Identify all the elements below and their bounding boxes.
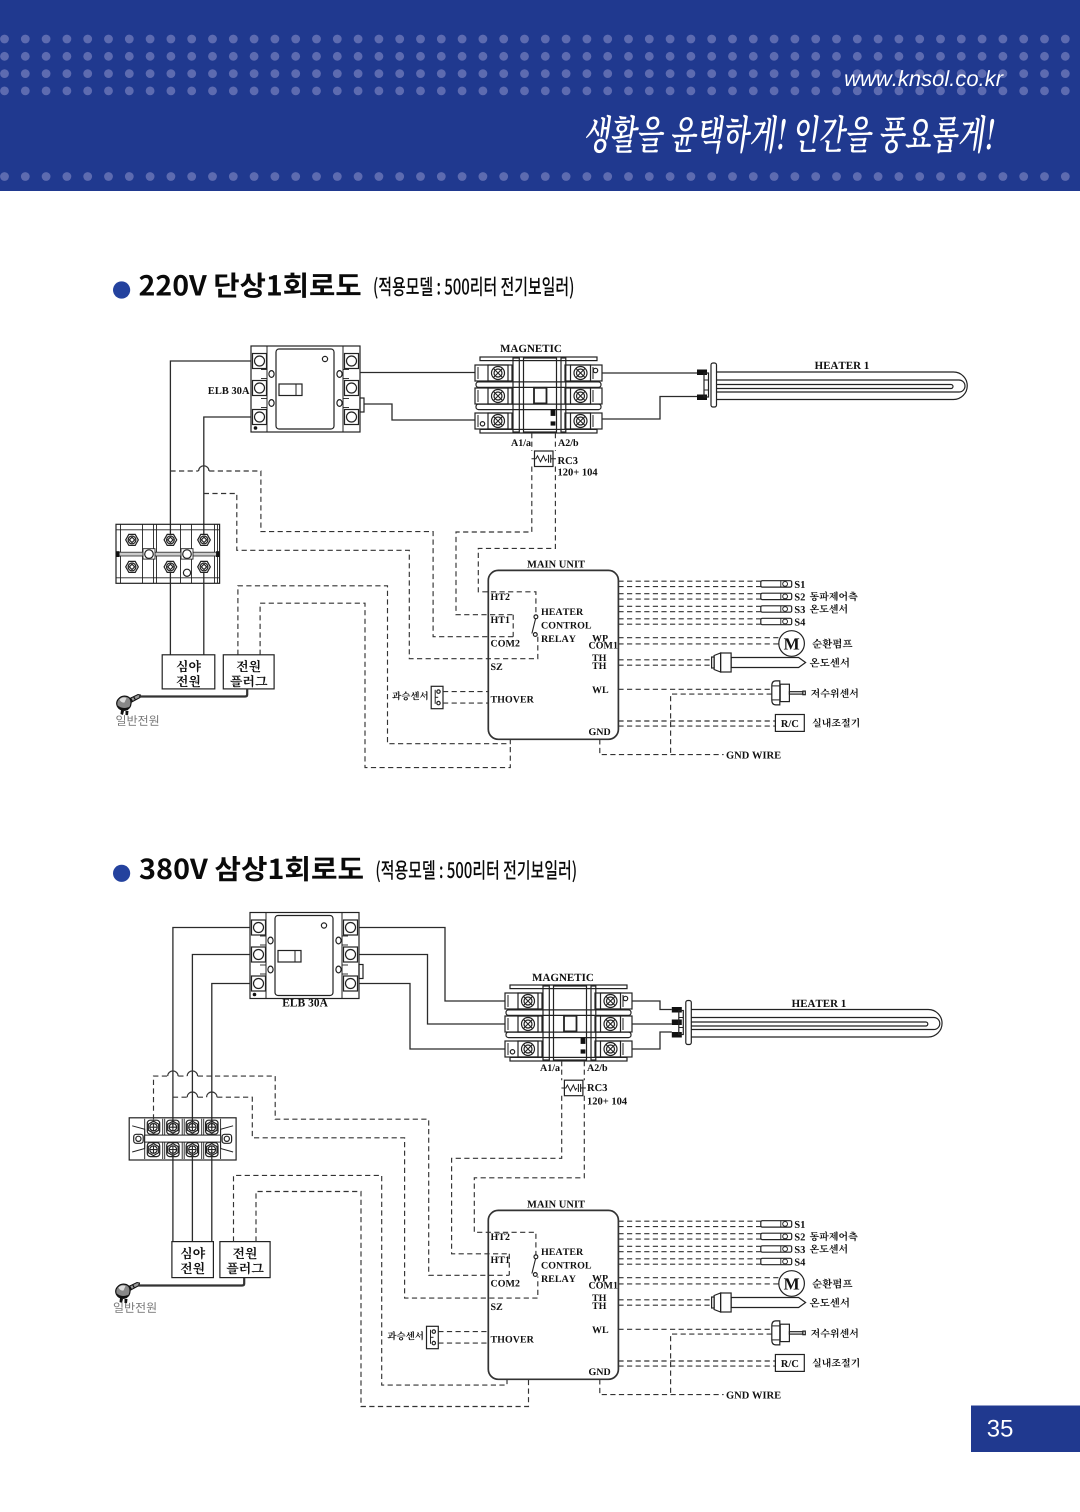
wire pair to sensor S3 (diagram 1) (618, 606, 760, 611)
label HEATER 1 (diagram 2) (792, 1000, 846, 1007)
wire pair to sensor S4 (diagram 1) (618, 619, 760, 624)
label S3 (diagram 2) (795, 1246, 805, 1253)
circulation pump motor M (diagram 2) (779, 1271, 805, 1297)
wire contactor to heater row2 (d2) (632, 1023, 672, 1025)
wire contactor to heater bottom (602, 397, 697, 420)
header band with dot pattern (0, 0, 1080, 191)
pin label COM1 (diagram 1) (589, 642, 617, 649)
pin label TH upper (diagram 1) (592, 655, 606, 662)
wire pair to room controller (diagram 2) (618, 1361, 775, 1366)
RC3 snubber (diagram 1) (532, 451, 557, 467)
wire pair to room controller (diagram 1) (618, 721, 775, 726)
water level sensor ground wire (diagram 2) (671, 1334, 772, 1395)
label overheat sensor korean (diagram 2) (388, 1331, 423, 1340)
label night power korean (d2) (181, 1247, 205, 1260)
hop over wire (diagram 1) (199, 466, 209, 471)
wire contactor to heater row3 (d2) (632, 1032, 672, 1049)
heater element HEATER 1 (diagram 1) (697, 363, 967, 407)
label night power korean (177, 660, 201, 673)
coil wire A1 to HT1 (d2) (452, 1096, 562, 1254)
wire block to night power box L3 (d2) (211, 1151, 213, 1242)
sensor lug S4 (diagram 1) (761, 618, 792, 624)
terminal block (diagram 2) (129, 1118, 236, 1160)
label RC3 (diagram 2) (587, 1084, 607, 1091)
wire block to night power box L2 (d2) (191, 1151, 193, 1242)
wire pair to sensor S4 (diagram 2) (618, 1259, 760, 1264)
label temp sensor korean (diagram 2) (810, 1298, 849, 1308)
pin label HT2 (diagram 1) (491, 593, 510, 600)
main unit label (diagram 2) (527, 1201, 585, 1208)
pin label SZ (diagram 1) (491, 663, 502, 670)
sensor lug S2 (diagram 1) (761, 593, 792, 599)
heater control relay label (diagram 2) (541, 1248, 583, 1255)
wire L3 block to breaker (d2) (212, 984, 250, 1129)
dashed night power tap to COM2 (170, 471, 513, 637)
sensor lug S3 (diagram 2) (761, 1246, 792, 1252)
pin label WP (diagram 1) (592, 635, 608, 642)
wire breaker to contactor bottom (364, 404, 475, 420)
power plug box (d2) (220, 1242, 270, 1278)
label A1/a (diagram 1) (511, 439, 531, 446)
coil wire A2 to RC3 (554, 433, 556, 451)
title 220V text (140, 273, 361, 298)
wire to water level sensor (diagram 1) (618, 688, 771, 690)
wire night power L2 to breaker (204, 417, 251, 535)
label S4 (diagram 1) (795, 619, 805, 626)
label MAGNETIC (diagram 2) (532, 974, 593, 981)
wire pair to sensor S3 (diagram 2) (618, 1246, 760, 1251)
dashed SZ tap line (d2) (173, 1097, 538, 1298)
dashed HT1 relay box right side (d2) (508, 1254, 510, 1276)
wire pair to sensor S1 (diagram 1) (618, 581, 760, 586)
wire contactor to heater row1 (d2) (632, 1001, 672, 1010)
label S3 korean (diagram 2) (810, 1244, 847, 1254)
pin label TH lower (diagram 1) (592, 663, 606, 670)
sensor lug S1 (diagram 2) (761, 1221, 792, 1227)
water level sensor ground wire (diagram 1) (671, 694, 772, 755)
title 220V subtitle (374, 277, 573, 299)
dashed HT1 relay box right side (512, 615, 514, 637)
label GND WIRE (diagram 1) (727, 752, 781, 759)
overheat sensor (diagram 1) (431, 686, 443, 708)
label pump korean (diagram 2) (812, 1279, 852, 1289)
sensor lug S1 (diagram 1) (761, 581, 792, 587)
label S3 (diagram 1) (795, 606, 805, 613)
pin label HT1 (diagram 1) (491, 616, 510, 623)
hop arcs night line (d2) (168, 1071, 198, 1076)
pin label HT1 (diagram 2) (491, 1256, 510, 1263)
power plug box (223, 655, 274, 689)
label S1 (diagram 1) (795, 581, 805, 588)
hop arcs SZ line (d2) (187, 1092, 217, 1097)
pin label COM1 (diagram 2) (589, 1282, 617, 1289)
night power box (162, 655, 215, 689)
label room controller korean (diagram 2) (813, 1358, 859, 1368)
label overheat sensor korean (diagram 1) (392, 691, 427, 700)
header url www.knsol.co.kr (845, 70, 1004, 86)
coil wire A1 to RC3 (d2) (561, 1061, 563, 1080)
water level sensor (diagram 2) (772, 1321, 806, 1345)
plug cord (diagram 2) (138, 1278, 244, 1286)
pin label TH lower (diagram 2) (592, 1303, 606, 1310)
pin label GND (diagram 1) (589, 728, 610, 735)
dashed plug line to gnd wire (d2) (256, 1192, 529, 1407)
heater control relay contact (diagram 1) (532, 615, 538, 637)
water level sensor (diagram 1) (772, 681, 806, 705)
label A1/a (diagram 2) (540, 1064, 560, 1071)
label S2 korean (diagram 1) (810, 591, 858, 601)
coil wire A2 to HT2 relay (478, 467, 555, 615)
wire L1 block to breaker (d2) (173, 928, 250, 1129)
wire L2 block to breaker (d2) (192, 955, 250, 1129)
label A2/b (diagram 1) (558, 439, 578, 446)
circulation pump motor M (diagram 1) (779, 631, 805, 657)
magnetic contactor (diagram 2) (505, 985, 632, 1061)
wire pair to sensor S2 (diagram 1) (618, 594, 760, 599)
page number 35 (988, 1420, 1013, 1437)
label A2/b (diagram 2) (587, 1064, 607, 1071)
dashed night line from block col1 (d2) (154, 1076, 510, 1275)
pin label THOVER (diagram 2) (491, 1336, 534, 1343)
sensor lug S2 (diagram 2) (761, 1233, 792, 1239)
wire pair to sensor S2 (diagram 2) (618, 1234, 760, 1239)
label water level korean (diagram 2) (811, 1328, 858, 1338)
title 380V subtitle (377, 860, 576, 882)
title bullet 2 (113, 865, 130, 882)
pin label TH upper (diagram 2) (592, 1295, 606, 1302)
pin label COM2 (diagram 2) (491, 1280, 520, 1287)
label GND WIRE (diagram 2) (727, 1392, 781, 1399)
coil wire A2 to HT2 relay (d2) (474, 1096, 584, 1255)
coil wire A2 to RC3 (d2) (583, 1061, 585, 1080)
label temp sensor korean (diagram 1) (810, 658, 849, 668)
pin label WL (diagram 2) (592, 1327, 608, 1334)
main unit label (diagram 1) (527, 561, 585, 568)
header slogan (584, 115, 996, 154)
heater control relay label (diagram 1) (541, 608, 583, 615)
label RC3 (diagram 1) (558, 457, 578, 464)
label pump korean (diagram 1) (812, 639, 852, 649)
temperature sensor probe (diagram 1) (712, 653, 806, 672)
label S2 (diagram 1) (795, 593, 805, 600)
plug cord (diagram 1) (139, 689, 247, 697)
room controller R/C box (diagram 2) (775, 1355, 804, 1372)
label MAGNETIC (diagram 1) (500, 345, 561, 352)
label 120+ 104 (diagram 2) (588, 1098, 627, 1105)
wire pair to temp sensor (diagram 2) (618, 1300, 710, 1305)
circuit breaker ELB 30A (diagram 2) (250, 913, 363, 999)
wire to water level sensor (diagram 2) (618, 1328, 771, 1330)
pin label HT2 (diagram 2) (491, 1233, 510, 1240)
night power box (d2) (172, 1242, 214, 1278)
pin label SZ (diagram 2) (491, 1303, 502, 1310)
pin label THOVER (diagram 1) (491, 696, 534, 703)
wire pair to sensor S1 (diagram 2) (618, 1221, 760, 1226)
label S2 (diagram 2) (795, 1233, 805, 1240)
main unit controller box (diagram 1) (488, 570, 618, 739)
circuit breaker ELB 30A (diagram 1) (251, 346, 364, 432)
pin label WL (diagram 1) (592, 687, 608, 694)
sensor lug S3 (diagram 1) (761, 606, 792, 612)
wire pair to pump (diagram 2) (618, 1278, 778, 1284)
overheat sensor (diagram 2) (427, 1326, 439, 1348)
dashed plug line to main unit gnd (d2) (234, 1175, 508, 1385)
temperature sensor probe (diagram 2) (712, 1293, 806, 1312)
wire night power L1 to breaker (170, 361, 251, 535)
wires overheat sensor to THOVER (diagram 1) (443, 692, 488, 704)
label S4 (diagram 2) (795, 1259, 805, 1266)
main unit controller box (diagram 2) (488, 1210, 618, 1379)
mains plug icon (diagram 2) (116, 1283, 140, 1304)
pin label COM2 (diagram 1) (491, 640, 520, 647)
label ELB 30A (diagram 1) (208, 387, 249, 394)
heater element HEATER 1 (diagram 2) (672, 1001, 942, 1045)
RC3 snubber (diagram 2) (561, 1080, 586, 1096)
dashed tap to SZ relay (204, 494, 538, 659)
label S3 korean (diagram 1) (810, 604, 847, 614)
heater control relay contact (diagram 2) (532, 1255, 538, 1277)
label water level korean (diagram 1) (811, 688, 858, 698)
wire pair to pump (diagram 1) (618, 638, 778, 644)
wire breaker to contactor row3 (d2) (359, 984, 505, 1050)
page number box (971, 1406, 1080, 1453)
wire block to night power box L2 (203, 573, 205, 655)
label power plug korean (d2) (233, 1247, 256, 1259)
mains plug icon (diagram 1) (117, 695, 141, 716)
label power plug korean (237, 660, 260, 672)
gnd wire from main unit (diagram 1) (600, 739, 724, 754)
label HEATER 1 (diagram 1) (815, 362, 869, 369)
title 380V text (140, 856, 363, 881)
coil wire A1 to HT1 (456, 467, 532, 615)
label S2 korean (diagram 2) (810, 1231, 858, 1241)
wire breaker to contactor row2 (d2) (359, 955, 505, 1025)
wire pair to temp sensor (diagram 1) (618, 660, 710, 665)
wire breaker to contactor row1 (d2) (359, 928, 505, 1002)
magnetic contactor (diagram 1) (475, 357, 602, 433)
dashed plug line to main unit gnd (238, 586, 510, 744)
coil wire A1 to RC3 (531, 433, 533, 451)
wire block to night power box L1 (d2) (172, 1151, 174, 1242)
room controller R/C box (diagram 1) (775, 715, 804, 732)
label 120+ 104 (diagram 1) (558, 469, 597, 476)
label ELB 30A (diagram 2) (282, 999, 327, 1007)
wires overheat sensor to THOVER (diagram 2) (438, 1332, 488, 1344)
pin label GND (diagram 2) (589, 1368, 610, 1375)
label room controller korean (diagram 1) (813, 718, 859, 728)
wire contactor to heater top (602, 372, 697, 374)
label mains power korean (diagram 1) (116, 715, 158, 726)
label mains power korean (diagram 2) (114, 1302, 156, 1313)
wire block to night power box L1 (169, 573, 171, 655)
sensor lug S4 (diagram 2) (761, 1258, 792, 1264)
label S1 (diagram 2) (795, 1221, 805, 1228)
pin label WP (diagram 2) (592, 1275, 608, 1282)
wire breaker to contactor top (360, 372, 475, 374)
gnd wire from main unit (diagram 2) (600, 1379, 724, 1394)
dashed plug line to gnd wire (260, 603, 510, 767)
terminal block (diagram 1) (116, 524, 220, 583)
title bullet 1 (113, 281, 130, 298)
